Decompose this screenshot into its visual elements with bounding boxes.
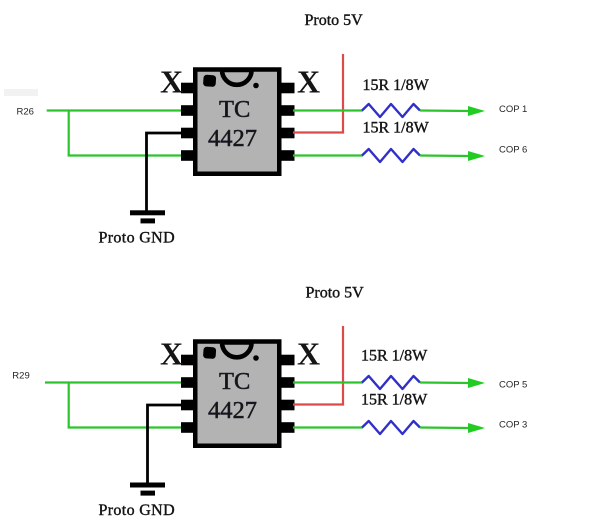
U1 index dot bbox=[253, 83, 259, 89]
svg-text:COP 3: COP 3 bbox=[499, 420, 527, 431]
U2 pin 2 bbox=[181, 377, 195, 388]
svg-text:TC: TC bbox=[219, 96, 250, 123]
resistor 15R 1/8W (fourth) bbox=[362, 421, 420, 434]
svg-text:X: X bbox=[297, 64, 320, 100]
arrow COP 1 bbox=[468, 106, 485, 116]
faint smudge artifact top-left bbox=[4, 89, 38, 96]
wire U1 pin3 to ground bbox=[147, 133, 183, 211]
svg-text:15R 1/8W: 15R 1/8W bbox=[361, 347, 428, 364]
svg-text:X: X bbox=[297, 336, 320, 372]
wire resistor to COP 6 arrow bbox=[420, 154, 470, 157]
svg-text:4427: 4427 bbox=[208, 125, 257, 152]
wire U1 pin7 to resistor bbox=[293, 109, 363, 111]
wire branch to pin4 bbox=[68, 154, 183, 156]
svg-text:COP 5: COP 5 bbox=[499, 380, 527, 391]
ground symbol (bottom) bbox=[130, 483, 165, 496]
U2 pin 5 bbox=[281, 422, 295, 433]
wire resistor to COP 1 arrow bbox=[420, 109, 470, 112]
wire U2 pin3 to ground bbox=[148, 405, 183, 483]
svg-text:TC: TC bbox=[219, 368, 250, 395]
resistor 15R 1/8W (third) bbox=[362, 376, 420, 389]
svg-text:15R 1/8W: 15R 1/8W bbox=[361, 392, 428, 409]
wire U2 pin7 to resistor bbox=[293, 381, 363, 383]
arrow COP 6 bbox=[468, 151, 485, 161]
U2 pin1 marker bbox=[203, 347, 216, 359]
wire U2 pin5 to resistor bbox=[293, 426, 363, 428]
U2 pin 4 bbox=[181, 422, 195, 433]
wire R26 input horizontal bbox=[47, 109, 183, 111]
wire branch vertical bbox=[68, 110, 70, 156]
U2 pin 3 bbox=[181, 400, 195, 411]
U2 notch bbox=[222, 343, 252, 358]
U2 index dot bbox=[253, 355, 259, 361]
arrow COP 5 bbox=[468, 378, 485, 388]
arrow COP 3 bbox=[468, 423, 485, 433]
U1 pin 8 bbox=[281, 83, 295, 94]
svg-text:15R 1/8W: 15R 1/8W bbox=[363, 120, 430, 137]
U1 pin 4 bbox=[181, 150, 195, 161]
U1 pin 3 bbox=[181, 128, 195, 139]
wire U1 pin5 to resistor bbox=[293, 154, 363, 156]
U1 pin 6 bbox=[281, 128, 295, 139]
resistor 15R 1/8W (second) bbox=[362, 149, 420, 162]
svg-text:X: X bbox=[160, 64, 183, 100]
wire resistor to COP 3 arrow bbox=[420, 426, 470, 429]
ground symbol bbox=[130, 210, 165, 223]
IC U1 TC4427 body bbox=[195, 70, 279, 174]
U1 pin1 marker bbox=[203, 75, 216, 87]
resistor 15R 1/8W (top) bbox=[362, 104, 420, 117]
U2 pin 6 bbox=[281, 400, 295, 411]
svg-text:COP 1: COP 1 bbox=[499, 104, 527, 115]
svg-text:Proto GND: Proto GND bbox=[99, 502, 176, 519]
U2 pin 8 bbox=[281, 355, 295, 366]
U1 pin 2 bbox=[181, 105, 195, 116]
U2 pin 1 bbox=[181, 355, 195, 366]
U2 pin 7 bbox=[281, 377, 295, 388]
svg-text:15R 1/8W: 15R 1/8W bbox=[363, 77, 430, 94]
svg-text:4427: 4427 bbox=[208, 397, 257, 424]
wire branch to pin4 (bottom) bbox=[68, 426, 183, 428]
IC U2 TC4427 body bbox=[195, 342, 279, 446]
svg-text:X: X bbox=[160, 336, 183, 372]
wire Proto 5V to U1 pin6 (red) bbox=[293, 54, 343, 133]
wire R29 input horizontal bbox=[45, 381, 183, 383]
wire branch vertical (bottom) bbox=[68, 382, 70, 428]
U1 pin 1 bbox=[181, 83, 195, 94]
U1 notch bbox=[222, 70, 252, 85]
svg-text:R29: R29 bbox=[12, 371, 29, 382]
svg-text:Proto 5V: Proto 5V bbox=[305, 12, 364, 29]
U1 pin 5 bbox=[281, 150, 295, 161]
wire Proto 5V to U2 pin6 (red) bbox=[293, 326, 343, 405]
svg-text:Proto GND: Proto GND bbox=[99, 230, 176, 247]
svg-text:COP 6: COP 6 bbox=[499, 145, 527, 156]
svg-text:R26: R26 bbox=[17, 106, 34, 117]
svg-text:Proto 5V: Proto 5V bbox=[306, 285, 365, 302]
wire resistor to COP 5 arrow bbox=[420, 381, 470, 384]
U1 pin 7 bbox=[281, 105, 295, 116]
